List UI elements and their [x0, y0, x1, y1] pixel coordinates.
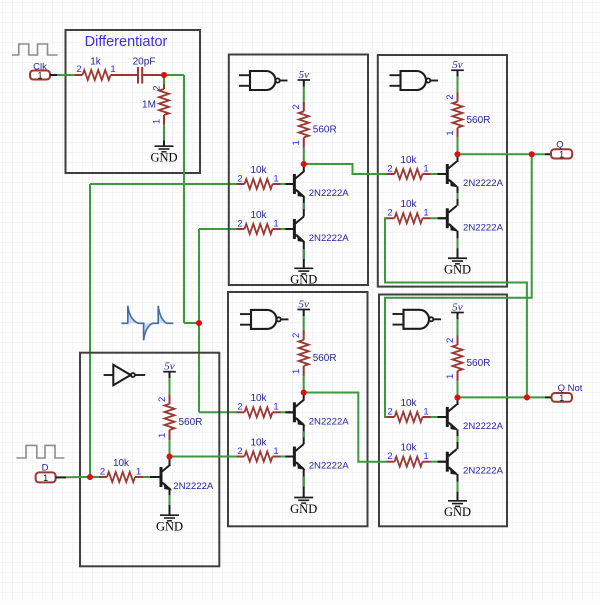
svg-text:2: 2	[291, 104, 302, 109]
resistor R12 (10k)	[387, 443, 431, 467]
junction node: output of U4	[301, 390, 307, 396]
wire: block U5 output to Q-Not port	[460, 396, 545, 398]
svg-text:2: 2	[237, 173, 242, 184]
svg-text:10k: 10k	[400, 398, 417, 409]
svg-text:GND: GND	[444, 263, 471, 277]
svg-text:2: 2	[387, 208, 392, 219]
wire: Q stub to port	[545, 153, 551, 155]
transistor Q10 (NPN 2N2222A symbol)	[438, 405, 456, 430]
resistor R1 (560R)	[291, 102, 337, 148]
NAND gate symbol U4	[240, 310, 289, 329]
svg-text:1: 1	[291, 369, 302, 374]
wire: upper 10k to base U4	[281, 411, 288, 413]
ground symbol U3	[444, 258, 471, 276]
wire: R 1M to ground	[163, 125, 165, 141]
wire: lower 10k to base U2	[281, 228, 288, 230]
NAND gate symbol U5	[393, 310, 442, 329]
wire: emitter to ground U2	[303, 242, 305, 269]
wire: emitter to collector link U3	[457, 187, 459, 206]
5v power symbol U3	[451, 59, 464, 71]
resistor R6 (10k)	[387, 199, 431, 223]
resistor R2 (10k)	[237, 165, 281, 189]
svg-text:2: 2	[387, 406, 392, 417]
resistor R8 (10k)	[237, 393, 281, 417]
wire: lower 10k to base U3	[431, 217, 438, 219]
block U4 outline box	[228, 292, 368, 526]
resistor R5 (10k)	[387, 155, 431, 179]
port Q-Not output	[552, 383, 583, 403]
clock square-wave annotation (gray)	[12, 44, 58, 55]
svg-text:2: 2	[387, 451, 392, 462]
svg-text:1: 1	[559, 393, 564, 403]
wire: upper 10k to base U2	[281, 183, 288, 185]
resistor R13 (560R)	[157, 395, 203, 441]
wire: emitter to collector link U2	[303, 197, 305, 217]
svg-text:2: 2	[445, 95, 456, 100]
svg-text:Clk: Clk	[33, 61, 47, 72]
block U3 outline box	[378, 55, 507, 287]
svg-text:20pF: 20pF	[133, 57, 156, 68]
svg-text:2N2222A: 2N2222A	[463, 421, 504, 432]
ground symbol differentiator	[150, 146, 177, 164]
svg-text:2N2222A: 2N2222A	[463, 222, 504, 233]
junction node: output of U5	[455, 395, 461, 401]
svg-text:2N2222A: 2N2222A	[173, 481, 214, 492]
wire: D port to junction	[66, 476, 87, 478]
wire: collector stub U3	[457, 154, 459, 162]
svg-text:2: 2	[387, 163, 392, 174]
resistor R7 (560R)	[291, 331, 337, 377]
svg-text:10k: 10k	[250, 210, 267, 221]
svg-text:5v: 5v	[299, 69, 310, 81]
wire: clock net vertical	[198, 229, 200, 412]
svg-text:10k: 10k	[400, 443, 417, 454]
svg-text:1: 1	[445, 131, 456, 136]
svg-text:1: 1	[273, 402, 278, 413]
wire: differentiator output vertical run down	[183, 75, 185, 323]
svg-text:2N2222A: 2N2222A	[309, 416, 350, 427]
svg-text:2: 2	[151, 85, 162, 90]
wire: 5v to 560R U5	[457, 313, 459, 320]
5v power symbol inverter block	[163, 361, 176, 373]
port Clk input	[30, 61, 50, 80]
junction node: D input net	[87, 474, 93, 480]
wire: D port stub	[56, 476, 66, 478]
svg-text:1: 1	[291, 140, 302, 145]
svg-text:1k: 1k	[90, 57, 102, 68]
svg-text:10k: 10k	[250, 165, 267, 176]
svg-text:5v: 5v	[299, 298, 310, 310]
block U5 outline box	[379, 295, 507, 527]
wire: 560R to collector junction inverter block	[169, 440, 171, 454]
wire: upper 10k to base U5	[431, 416, 438, 418]
wire: Clk port to R 1k pin 2	[57, 74, 75, 76]
svg-text:2: 2	[291, 333, 302, 338]
wire: D input vertical run up to block U2 upper input	[89, 184, 91, 477]
svg-text:560R: 560R	[313, 353, 337, 364]
wire: 560R to collector junction U5	[457, 381, 459, 395]
NAND gate symbol U2	[239, 71, 288, 90]
svg-text:Q: Q	[556, 139, 563, 150]
transistor Q5 (NPN 2N2222A symbol)	[438, 206, 456, 231]
junction node: Q net	[529, 151, 535, 157]
svg-text:GND: GND	[444, 505, 471, 519]
svg-text:10k: 10k	[113, 458, 130, 469]
wire: emitter to collector link U4	[303, 425, 305, 444]
wire: collector stub U2	[303, 164, 305, 172]
ground symbol U2	[290, 268, 317, 286]
wire: clock net to block U4 upper 10k	[199, 411, 237, 413]
svg-text:Q Not: Q Not	[558, 383, 583, 394]
wire: D junction to 10k	[93, 476, 99, 478]
svg-text:GND: GND	[290, 273, 317, 287]
svg-text:1: 1	[110, 64, 115, 75]
inverter block outline box	[80, 353, 219, 567]
svg-text:1: 1	[151, 119, 162, 124]
wire: emitter to ground U5	[457, 474, 459, 501]
svg-text:GND: GND	[156, 520, 183, 534]
ground symbol inverter block	[156, 515, 183, 533]
transistor Q7 (NPN 2N2222A symbol)	[285, 400, 303, 425]
wire: lower 10k to base U4	[281, 456, 288, 458]
wire: emitter to ground U4	[303, 469, 305, 498]
wire: upper 10k to base U3	[431, 173, 438, 175]
junction node: Q-Not net	[524, 395, 530, 401]
svg-text:1: 1	[157, 433, 168, 438]
5v power symbol U4	[297, 298, 310, 310]
svg-text:10k: 10k	[400, 155, 417, 166]
5v power symbol U5	[451, 301, 464, 313]
wire: 560R to collector junction U2	[303, 148, 305, 162]
wire: collector stub U5	[457, 398, 459, 406]
wire: clock net to block U2 lower 10k	[199, 228, 237, 230]
wire: block U2 output to block U3 upper 10k	[307, 164, 387, 174]
junction node: output of U2	[301, 161, 307, 167]
transistor Q11 (NPN 2N2222A symbol)	[438, 449, 456, 474]
wire: lower 10k to base U5	[431, 461, 438, 463]
svg-text:2: 2	[100, 466, 105, 477]
ground symbol U5	[444, 501, 471, 519]
svg-text:D: D	[42, 463, 49, 474]
transistor Q2 (NPN 2N2222A symbol)	[285, 217, 303, 242]
transistor Q1 (NPN 2N2222A symbol)	[285, 172, 303, 197]
wire: Clk port stub	[50, 74, 57, 76]
resistor R4 (560R)	[445, 92, 491, 138]
svg-text:1: 1	[273, 173, 278, 184]
differentiated pulse waveform annotation (blue)	[121, 306, 173, 341]
svg-text:2: 2	[237, 402, 242, 413]
data square-wave annotation (gray)	[16, 445, 64, 458]
svg-text:2N2222A: 2N2222A	[463, 178, 504, 189]
svg-text:10k: 10k	[250, 437, 267, 448]
resistor R 1M	[142, 77, 169, 125]
wire: D net to block U2 upper 10k	[90, 183, 237, 185]
resistor R9 (10k)	[237, 437, 281, 461]
svg-text:1: 1	[423, 451, 428, 462]
svg-text:GND: GND	[150, 151, 177, 165]
transistor Q13 (NPN 2N2222A symbol)	[152, 465, 170, 490]
wire: 5v to 560R U2	[303, 80, 305, 87]
svg-text:10k: 10k	[250, 393, 267, 404]
resistor R11 (10k)	[387, 398, 431, 422]
wire: 5v to 560R U3	[457, 70, 459, 77]
NAND gate symbol U3	[390, 71, 439, 90]
5v power symbol U2	[298, 69, 311, 81]
wire: emitter to ground inverter block	[169, 490, 171, 516]
resistor R14 (10k)	[99, 458, 143, 482]
svg-text:1: 1	[273, 218, 278, 229]
svg-text:1: 1	[559, 149, 564, 159]
port Q output	[551, 139, 572, 159]
transistor Q4 (NPN 2N2222A symbol)	[438, 162, 456, 187]
svg-text:2: 2	[237, 218, 242, 229]
junction node: differentiator output	[161, 72, 167, 78]
svg-text:2: 2	[445, 338, 456, 343]
svg-text:1: 1	[423, 163, 428, 174]
wire: 560R to collector junction U4	[303, 376, 305, 390]
wire: emitter to collector link U5	[457, 430, 459, 450]
wire: block U4 output to block U5 lower 10k	[307, 393, 387, 462]
svg-text:5v: 5v	[164, 361, 175, 373]
wire: collector stub inverter block	[169, 457, 171, 466]
svg-text:560R: 560R	[179, 417, 203, 428]
svg-text:2N2222A: 2N2222A	[463, 466, 504, 477]
svg-text:5v: 5v	[452, 301, 463, 313]
wire: 5v to 560R inverter block	[169, 372, 171, 379]
svg-text:GND: GND	[290, 502, 317, 516]
wire: inverter block output to block U4 lower 10k	[170, 456, 237, 458]
junction node: clock net	[196, 320, 202, 326]
resistor R 1k	[75, 57, 119, 81]
resistor R3 (10k)	[237, 210, 281, 234]
junction node: inverter block output	[167, 454, 173, 460]
wire: block U3 output to Q port	[460, 153, 529, 155]
inverter gate symbol (bottom-left block)	[104, 365, 146, 385]
wire: 10k to base inverter block	[143, 476, 150, 478]
wire: 5v to 560R U4	[303, 310, 305, 317]
ground symbol U4	[290, 498, 317, 516]
wire: junction to vertical drop	[164, 74, 184, 76]
capacitor 20pF	[119, 57, 162, 84]
junction node: output of U3	[455, 151, 461, 157]
Differentiator block outline box	[66, 30, 201, 173]
block U2 outline box	[229, 55, 368, 286]
junction dots overlay	[87, 72, 535, 480]
svg-text:2N2222A: 2N2222A	[309, 233, 350, 244]
svg-text:5v: 5v	[452, 59, 463, 71]
svg-text:2: 2	[76, 64, 81, 75]
svg-text:1: 1	[445, 374, 456, 379]
svg-text:Differentiator: Differentiator	[85, 34, 168, 50]
port D input	[36, 463, 56, 483]
wire: emitter to ground U3	[457, 231, 459, 259]
svg-text:2: 2	[237, 446, 242, 457]
svg-text:1: 1	[43, 473, 48, 483]
wire: clock net horizontal jog	[184, 322, 199, 324]
svg-text:2N2222A: 2N2222A	[309, 461, 350, 472]
svg-text:2N2222A: 2N2222A	[309, 188, 350, 199]
wire: Q net cross-coupled to block U5 upper 10k	[385, 154, 532, 417]
svg-text:560R: 560R	[467, 115, 491, 126]
svg-text:1: 1	[136, 466, 141, 477]
svg-text:1: 1	[423, 208, 428, 219]
wire: block U3 lower 10k to Q-Not net	[385, 218, 527, 394]
wire: Q-Not stub to port	[545, 396, 552, 398]
svg-text:1: 1	[423, 406, 428, 417]
svg-text:2: 2	[157, 397, 168, 402]
svg-text:10k: 10k	[400, 199, 417, 210]
svg-text:1M: 1M	[142, 100, 156, 111]
wire: 560R to collector junction U3	[457, 138, 459, 152]
resistor R10 (560R)	[445, 336, 491, 382]
transistor Q8 (NPN 2N2222A symbol)	[285, 444, 303, 469]
svg-text:560R: 560R	[467, 358, 491, 369]
svg-text:560R: 560R	[313, 125, 337, 136]
svg-text:1: 1	[273, 446, 278, 457]
wire: collector stub U4	[303, 393, 305, 401]
